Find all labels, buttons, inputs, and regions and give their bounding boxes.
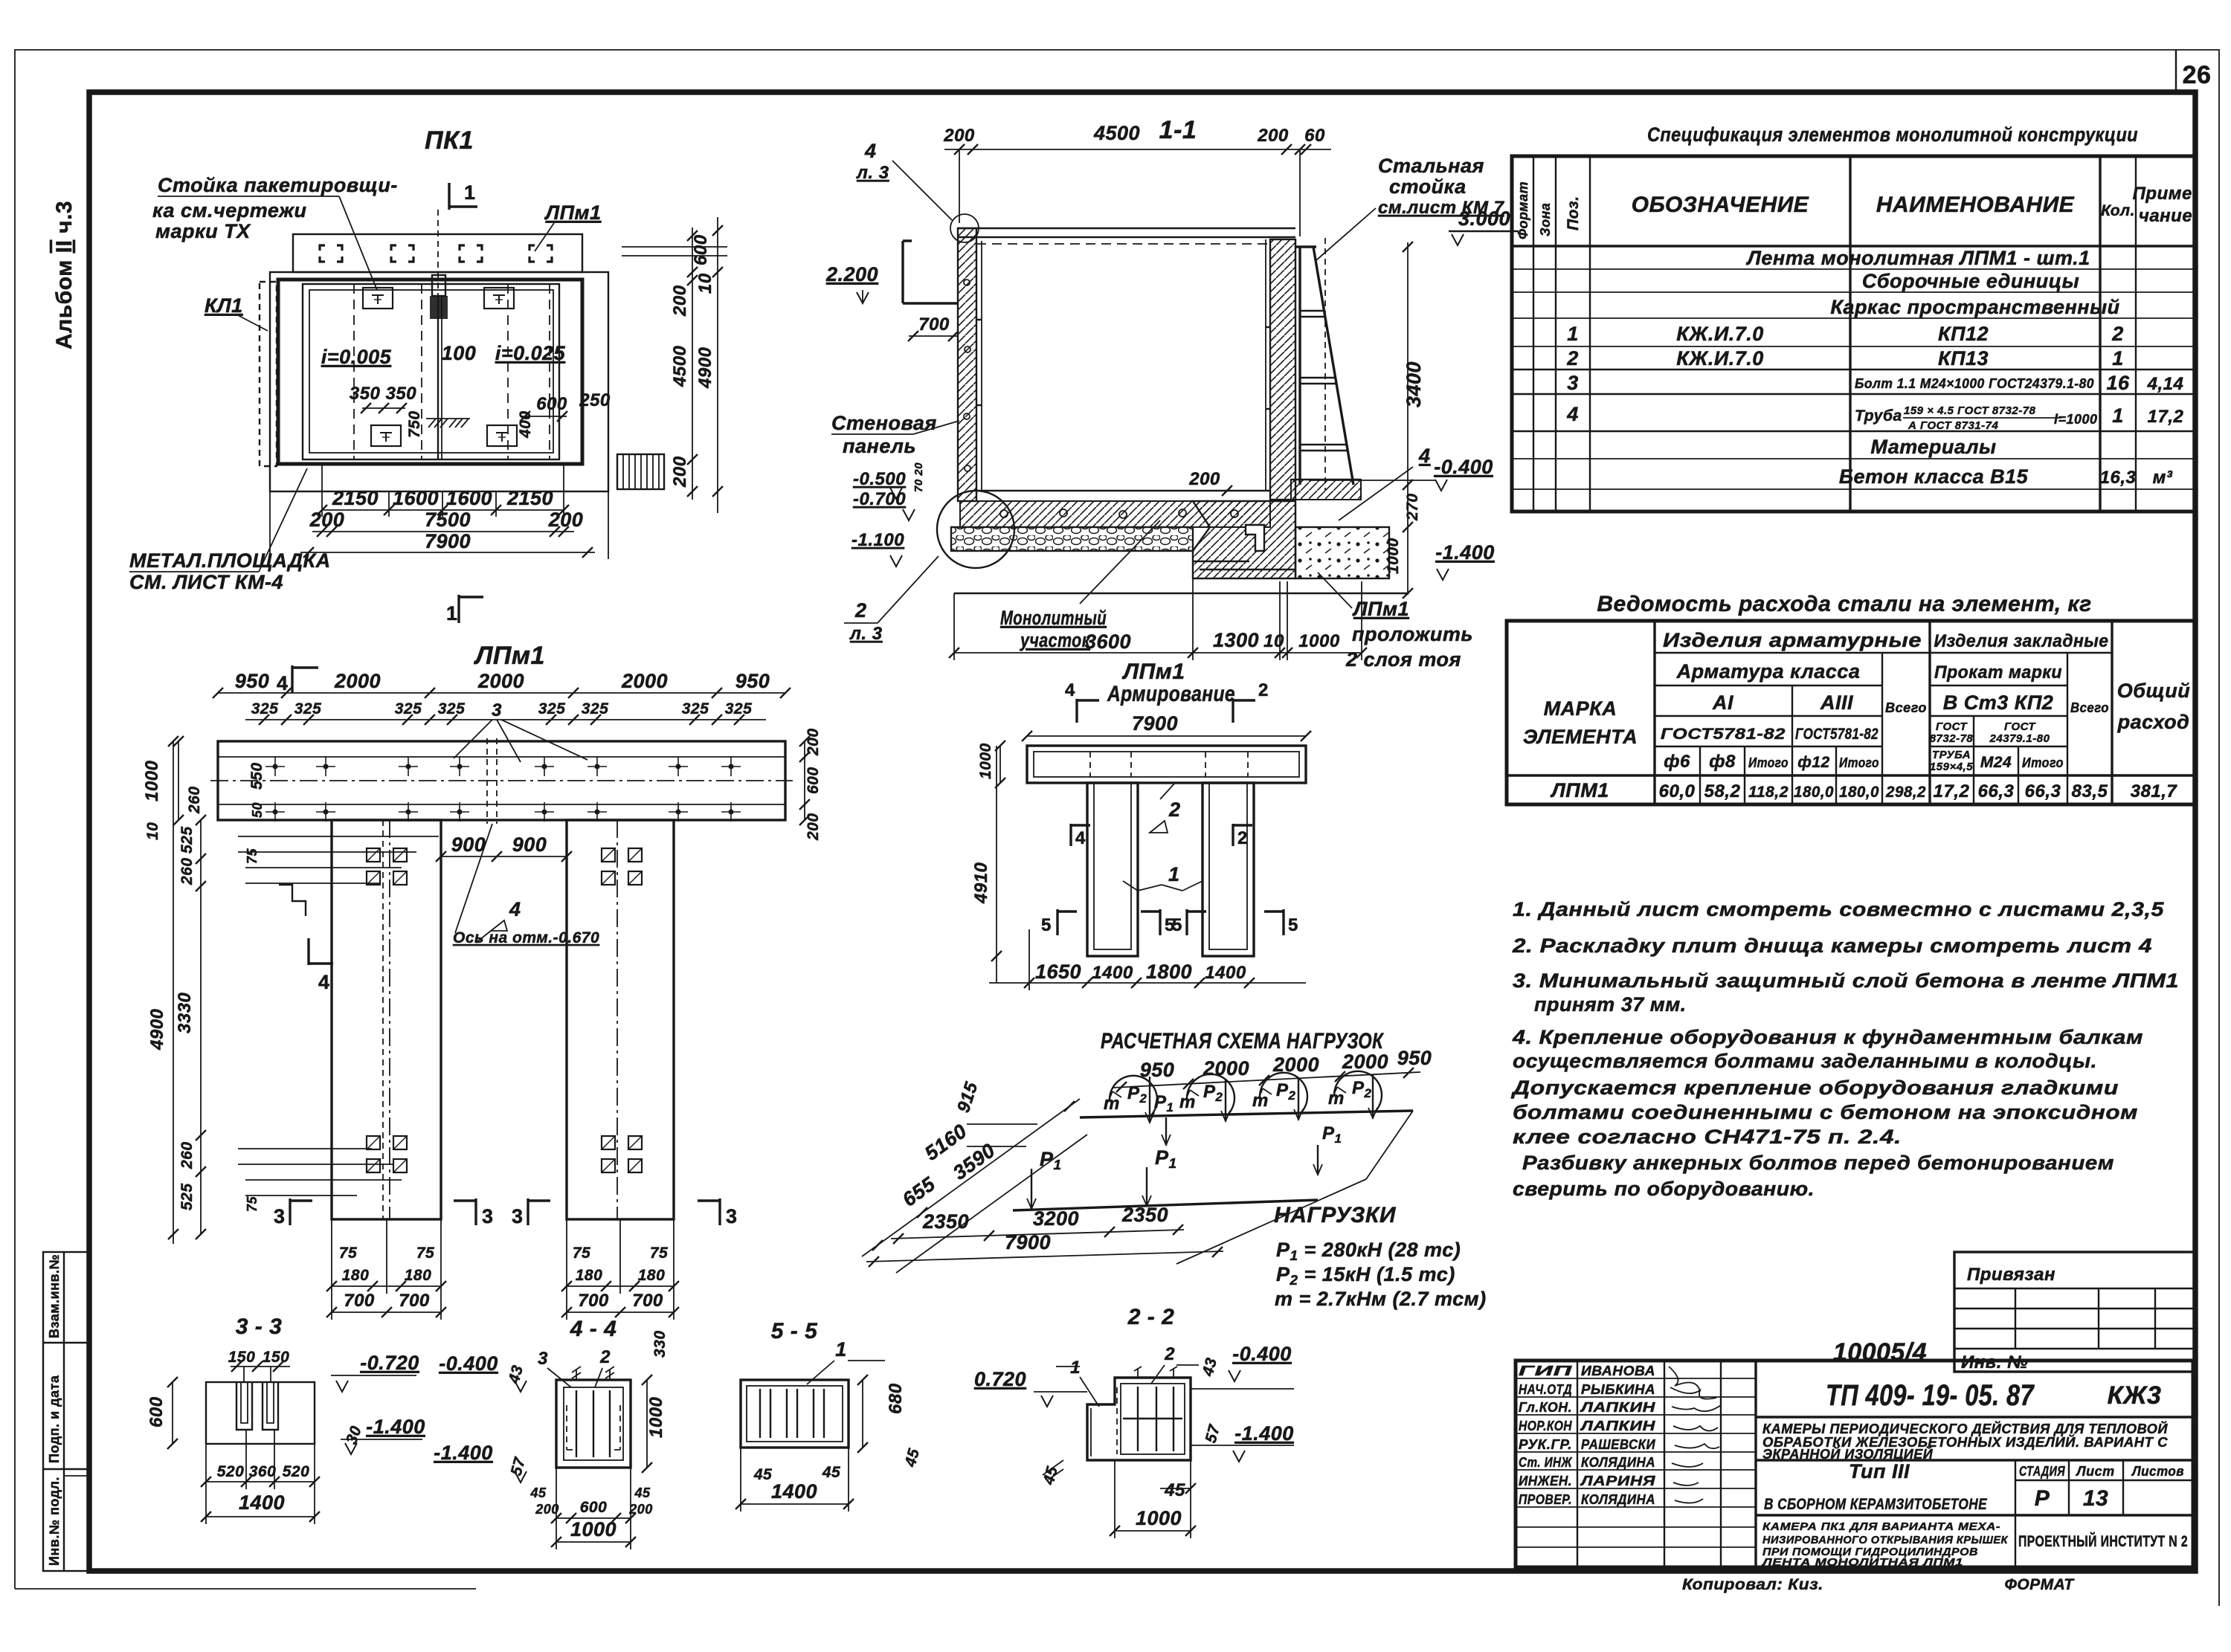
svg-text:7900: 7900	[1005, 1231, 1051, 1253]
svg-text:Разбивку анкерных болтов: Разбивку анкерных болтов перед бетониров…	[1522, 1152, 2114, 1174]
svg-text:Взам.инв.№: Взам.инв.№	[47, 1254, 62, 1338]
metal platform outer rect	[270, 272, 608, 491]
svg-text:200: 200	[670, 456, 690, 488]
svg-text:950: 950	[1140, 1059, 1175, 1081]
svg-text:Общий: Общий	[2117, 680, 2190, 702]
svg-text:ТРУБА: ТРУБА	[1932, 749, 1971, 761]
900 900 dims	[441, 856, 567, 857]
svg-text:180: 180	[405, 1267, 432, 1284]
svg-text:1600: 1600	[393, 487, 439, 509]
svg-text:700: 700	[578, 1291, 609, 1311]
svg-text:1000: 1000	[1385, 538, 1402, 574]
svg-text:4: 4	[509, 898, 521, 920]
svg-text:ЛЕНТА МОНОЛИТНАЯ ЛПМ1: ЛЕНТА МОНОЛИТНАЯ ЛПМ1	[1762, 1556, 1963, 1569]
svg-text:Лист: Лист	[2075, 1464, 2114, 1479]
svg-text:3: 3	[482, 1205, 494, 1227]
svg-text:АI: АI	[1712, 691, 1733, 714]
svg-text:РУК.ГР.: РУК.ГР.	[1519, 1437, 1572, 1452]
svg-text:2. Раскладку плит днища к: 2. Раскладку плит днища камеры смотреть …	[1512, 935, 2152, 957]
svg-text:1400: 1400	[771, 1480, 817, 1503]
svg-text:75: 75	[416, 1245, 434, 1262]
svg-text:550: 550	[248, 762, 265, 790]
svg-text:Стеновая: Стеновая	[831, 412, 937, 434]
svg-text:5: 5	[1288, 915, 1298, 935]
svg-text:180,0: 180,0	[1794, 784, 1834, 801]
left dim chains of legs	[200, 820, 202, 1234]
svg-text:Лента монолитная ЛПМ1 - шт.1: Лента монолитная ЛПМ1 - шт.1	[1745, 247, 2090, 269]
bent plate left	[903, 241, 958, 303]
svg-text:ЛАПКИН: ЛАПКИН	[1579, 1419, 1655, 1433]
svg-text:-0.400: -0.400	[439, 1352, 498, 1375]
3400 dim	[1407, 242, 1409, 492]
svg-text:3. Минимальный защитный сл: 3. Минимальный защитный слой бетона в ле…	[1513, 969, 2179, 992]
svg-text:расход: расход	[2117, 711, 2190, 733]
top dim line 7900	[218, 692, 785, 694]
svg-text:1. Данный лист смотреть со: 1. Данный лист смотреть совместно с лист…	[1513, 898, 2165, 920]
svg-text:2000: 2000	[1203, 1057, 1249, 1080]
svg-text:КЖ.И.7.0: КЖ.И.7.0	[1676, 323, 1764, 345]
svg-text:600: 600	[580, 1499, 608, 1516]
svg-text:ГОСТ: ГОСТ	[2004, 720, 2036, 733]
svg-text:Копировал: Киз.: Копировал: Киз.	[1682, 1576, 1823, 1593]
svg-text:700: 700	[918, 314, 950, 335]
svg-text:75: 75	[650, 1245, 668, 1262]
svg-text:стойка: стойка	[1389, 175, 1467, 198]
svg-text:ф8: ф8	[1709, 752, 1736, 772]
svg-text:СТАДИЯ: СТАДИЯ	[2019, 1464, 2065, 1479]
svg-text:45: 45	[1164, 1480, 1185, 1500]
svg-text:325: 325	[438, 700, 466, 717]
svg-text:260: 260	[178, 1141, 196, 1169]
svg-text:м³: м³	[2153, 468, 2173, 488]
svg-text:КОЛЯДИНА: КОЛЯДИНА	[1581, 1492, 1655, 1507]
svg-text:4500: 4500	[670, 345, 690, 387]
svg-text:ф6: ф6	[1664, 752, 1690, 772]
right part	[1756, 1416, 2193, 1418]
svg-text:ЛПм1: ЛПм1	[473, 642, 545, 670]
svg-text:600: 600	[691, 234, 711, 265]
svg-text:Поз.: Поз.	[1565, 196, 1582, 230]
svg-text:150: 150	[263, 1349, 290, 1366]
steps right	[617, 454, 664, 489]
svg-text:2: 2	[2111, 323, 2124, 345]
svg-text:принят 37 мм.: принят 37 мм.	[1534, 993, 1687, 1016]
svg-text:700: 700	[399, 1291, 430, 1311]
svg-text:ГОСТ5781-82: ГОСТ5781-82	[1795, 726, 1879, 743]
svg-text:m: m	[1252, 1091, 1269, 1111]
svg-text:л. 3: л. 3	[856, 163, 889, 183]
bottom dims	[989, 982, 1306, 984]
floor structure	[976, 490, 1270, 491]
svg-text:900: 900	[451, 833, 486, 856]
svg-text:НИЗИРОВАННОГО ОТКРЫВАНИЯ КРЫШЕ: НИЗИРОВАННОГО ОТКРЫВАНИЯ КРЫШЕК	[1762, 1534, 2009, 1546]
svg-text:16,3: 16,3	[2100, 468, 2137, 488]
svg-text:КЛ1: КЛ1	[205, 294, 243, 317]
svg-text:298,2: 298,2	[1885, 784, 1926, 801]
svg-text:Сборочные единицы: Сборочные единицы	[1862, 270, 2079, 292]
svg-text:ПРОВЕР.: ПРОВЕР.	[1519, 1492, 1572, 1507]
svg-text:Стойка пакетировщи-: Стойка пакетировщи-	[158, 174, 398, 196]
svg-text:4910: 4910	[971, 862, 991, 904]
svg-text:520: 520	[217, 1463, 245, 1480]
svg-text:-1.100: -1.100	[851, 530, 904, 550]
svg-text:Кол.: Кол.	[2101, 202, 2135, 219]
svg-text:Ось на отм.-0.670: Ось на отм.-0.670	[453, 929, 599, 946]
svg-text:270: 270	[1404, 493, 1421, 521]
svg-text:НАИМЕНОВАНИЕ: НАИМЕНОВАНИЕ	[1876, 193, 2075, 217]
svg-text:1000: 1000	[1136, 1507, 1182, 1529]
svg-text:1000: 1000	[142, 760, 162, 801]
svg-text:2 - 2: 2 - 2	[1127, 1305, 1175, 1329]
svg-text:4: 4	[1566, 403, 1579, 425]
svg-text:45: 45	[634, 1485, 651, 1500]
svg-text:л. 3: л. 3	[849, 624, 883, 644]
svg-text:150: 150	[228, 1349, 256, 1366]
svg-text:525: 525	[178, 1183, 196, 1210]
beam 1 with moment arcs	[1080, 1111, 1413, 1117]
svg-text:200: 200	[670, 285, 690, 317]
svg-text:ФОРМАТ: ФОРМАТ	[2004, 1576, 2075, 1593]
svg-text:950: 950	[235, 670, 270, 692]
svg-text:16: 16	[2106, 372, 2130, 394]
right dim chains	[622, 246, 727, 248]
svg-text:ОБОЗНАЧЕНИЕ: ОБОЗНАЧЕНИЕ	[1632, 193, 1809, 217]
svg-text:330: 330	[651, 1330, 669, 1358]
svg-text:Приме-: Приме-	[2133, 184, 2199, 204]
svg-text:ЭЛЕМЕНТА: ЭЛЕМЕНТА	[1523, 726, 1638, 748]
svg-text:66,3: 66,3	[1978, 781, 2015, 801]
svg-text:600: 600	[805, 767, 822, 794]
svg-text:60,0: 60,0	[1659, 781, 1696, 801]
center jack	[437, 296, 439, 459]
svg-text:159 × 4.5 ГОСТ 8732-78: 159 × 4.5 ГОСТ 8732-78	[1904, 404, 2036, 417]
svg-text:1: 1	[835, 1338, 847, 1361]
svg-text:Зона: Зона	[1538, 203, 1553, 236]
sheet number box 26	[2175, 50, 2177, 92]
band	[1027, 746, 1306, 783]
chamber walls	[278, 280, 582, 464]
svg-text:17,2: 17,2	[1934, 781, 1970, 801]
svg-text:i=0.005: i=0.005	[321, 346, 392, 368]
svg-text:4: 4	[318, 971, 330, 993]
right dims of band	[804, 741, 805, 820]
svg-text:4,14: 4,14	[2147, 374, 2184, 394]
svg-text:2: 2	[599, 1347, 611, 1367]
svg-text:325: 325	[395, 700, 422, 717]
svg-text:2: 2	[1566, 347, 1579, 370]
svg-text:4. Крепление оборудования: 4. Крепление оборудования к фундаментным…	[1512, 1026, 2143, 1048]
svg-text:325: 325	[294, 700, 322, 717]
svg-text:2.200: 2.200	[825, 263, 878, 285]
svg-text:4500: 4500	[1093, 122, 1140, 144]
svg-text:2: 2	[1258, 680, 1269, 700]
svg-text:НАЧ.ОТД: НАЧ.ОТД	[1519, 1382, 1572, 1397]
svg-text:75: 75	[245, 1196, 260, 1212]
svg-text:Стальная: Стальная	[1378, 155, 1484, 177]
svg-text:1000: 1000	[570, 1518, 616, 1540]
svg-text:Спецификация элементов монол: Спецификация элементов монолитной констр…	[1647, 123, 2138, 146]
svg-text:панель: панель	[843, 435, 916, 457]
svg-text:Инв.№ подл.: Инв.№ подл.	[47, 1477, 62, 1566]
svg-text:3400: 3400	[1403, 361, 1425, 407]
svg-text:ИВАНОВА: ИВАНОВА	[1581, 1364, 1655, 1378]
svg-text:3600: 3600	[1085, 630, 1131, 653]
svg-text:10: 10	[695, 273, 715, 294]
svg-text:4: 4	[1418, 445, 1431, 467]
svg-text:700: 700	[344, 1291, 375, 1311]
svg-text:Листов: Листов	[2131, 1464, 2184, 1479]
svg-text:950: 950	[1397, 1047, 1432, 1069]
svg-text:ф12: ф12	[1797, 754, 1829, 771]
svg-text:1-1: 1-1	[1159, 116, 1197, 144]
svg-text:4: 4	[864, 140, 877, 162]
svg-text:700: 700	[632, 1291, 663, 1311]
svg-text:4: 4	[1065, 680, 1075, 700]
svg-text:m: m	[1328, 1088, 1345, 1109]
main band	[218, 741, 785, 820]
svg-text:НАГРУЗКИ: НАГРУЗКИ	[1274, 1203, 1397, 1227]
svg-text:2000: 2000	[621, 670, 668, 692]
svg-text:Привязан: Привязан	[1967, 1265, 2055, 1285]
svg-text:1: 1	[1070, 1358, 1081, 1378]
svg-text:1000: 1000	[977, 743, 994, 779]
top dim line	[1113, 1072, 1420, 1088]
svg-text:17,2: 17,2	[2148, 407, 2184, 427]
svg-text:Армирование: Армирование	[1107, 682, 1235, 706]
svg-text:4: 4	[1075, 828, 1086, 848]
svg-text:260: 260	[186, 786, 203, 814]
svg-text:83,5: 83,5	[2072, 781, 2108, 801]
svg-text:В СБОРНОМ КЕРАМЗИТОБЕТОНЕ: В СБОРНОМ КЕРАМЗИТОБЕТОНЕ	[1764, 1496, 1987, 1513]
svg-text:ИНЖЕН.: ИНЖЕН.	[1519, 1474, 1572, 1488]
svg-text:4900: 4900	[695, 346, 715, 389]
svg-text:Изделия закладные: Изделия закладные	[1934, 631, 2109, 651]
svg-text:100: 100	[442, 342, 477, 364]
svg-text:-0.400: -0.400	[1434, 456, 1493, 478]
left wall hatched	[958, 228, 976, 501]
svg-text:325: 325	[582, 700, 609, 717]
svg-text:600: 600	[147, 1396, 167, 1427]
svg-text:Бетон класса В15: Бетон класса В15	[1839, 465, 2029, 488]
KL1 dashed panel left	[260, 282, 277, 466]
dashed joints	[353, 284, 355, 459]
svg-text:-0.400: -0.400	[1232, 1343, 1292, 1365]
legs	[1087, 783, 1138, 956]
325 dim row	[245, 719, 766, 720]
right wall hatched	[1270, 239, 1295, 500]
svg-text:ЛПМ1: ЛПМ1	[1550, 779, 1609, 801]
svg-text:2: 2	[854, 599, 867, 622]
bottom dim chains	[269, 491, 271, 559]
svg-text:1300: 1300	[1213, 629, 1259, 651]
svg-text:3: 3	[274, 1205, 286, 1227]
svg-text:КЖ.И.7.0: КЖ.И.7.0	[1676, 347, 1764, 370]
svg-text:ЛПм1: ЛПм1	[1121, 659, 1185, 684]
svg-text:3: 3	[726, 1205, 738, 1227]
oblique plane edges	[862, 1099, 1080, 1256]
svg-text:200: 200	[805, 813, 822, 841]
svg-text:66,3: 66,3	[2025, 781, 2061, 801]
svg-text:Тип III: Тип III	[1849, 1460, 1910, 1482]
svg-text:2: 2	[1237, 828, 1248, 848]
svg-text:1: 1	[446, 602, 458, 625]
svg-text:В Ст3 КП2: В Ст3 КП2	[1943, 691, 2054, 714]
svg-text:АIII: АIII	[1820, 691, 1853, 714]
svg-text:ка см.чертежи: ка см.чертежи	[152, 199, 306, 222]
svg-text:марки ТХ: марки ТХ	[155, 220, 251, 242]
svg-text:Болт 1.1 М24×1000 ГОСТ24379.1-: Болт 1.1 М24×1000 ГОСТ24379.1-80	[1855, 376, 2094, 391]
svg-text:75: 75	[573, 1245, 590, 1262]
bottom dims	[891, 1230, 1184, 1239]
svg-text:250: 250	[579, 390, 611, 410]
svg-text:участок: участок	[1019, 629, 1090, 651]
svg-text:2000: 2000	[477, 670, 524, 692]
svg-text:600: 600	[536, 394, 567, 414]
oblique dims left	[872, 1240, 883, 1251]
center line of jack	[437, 210, 439, 296]
svg-text:ПК1: ПК1	[425, 126, 474, 155]
svg-text:ГИП: ГИП	[1519, 1364, 1573, 1378]
svg-text:ЛПм1: ЛПм1	[544, 201, 602, 224]
svg-text:200: 200	[548, 509, 584, 531]
svg-text:0.720: 0.720	[974, 1368, 1026, 1390]
svg-text:Всего: Всего	[1885, 700, 1927, 715]
svg-text:1600: 1600	[446, 487, 492, 509]
svg-text:13: 13	[2083, 1486, 2108, 1511]
svg-text:3: 3	[512, 1205, 524, 1227]
svg-text:l=1000: l=1000	[2054, 412, 2098, 427]
svg-text:i=0.025: i=0.025	[495, 342, 566, 364]
svg-text:75: 75	[339, 1245, 357, 1262]
svg-text:-0.500: -0.500	[853, 469, 906, 489]
svg-text:70 20: 70 20	[912, 462, 925, 492]
svg-text:900: 900	[512, 833, 547, 856]
big detail circle bottom left	[937, 491, 1014, 568]
svg-text:болтами соединенными с бет: болтами соединенными с бетоном на эпокси…	[1513, 1101, 2138, 1123]
svg-text:325: 325	[725, 700, 753, 717]
svg-text:КОЛЯДИНА: КОЛЯДИНА	[1581, 1455, 1655, 1470]
svg-text:Допускается крепление обор: Допускается крепление оборудования гладк…	[1511, 1077, 2119, 1099]
svg-text:10: 10	[144, 822, 161, 840]
svg-text:КП13: КП13	[1938, 347, 1989, 370]
svg-text:200: 200	[805, 728, 822, 756]
svg-text:7900: 7900	[425, 530, 471, 552]
svg-text:2350: 2350	[922, 1210, 969, 1233]
svg-text:m: m	[1179, 1092, 1196, 1112]
section 3 marks	[289, 1198, 291, 1225]
svg-text:60: 60	[1304, 126, 1325, 146]
svg-text:4900: 4900	[147, 1008, 167, 1051]
svg-text:ТП 409- 19- 05. 87: ТП 409- 19- 05. 87	[1826, 1379, 2035, 1412]
svg-text:75: 75	[245, 848, 260, 864]
svg-text:Гл.КОН.: Гл.КОН.	[1519, 1400, 1572, 1415]
svg-text:4 - 4: 4 - 4	[570, 1317, 617, 1341]
svg-text:45: 45	[753, 1466, 772, 1483]
section mark 1 bottom	[457, 595, 460, 623]
svg-text:200: 200	[628, 1502, 653, 1517]
svg-text:26: 26	[2183, 61, 2212, 89]
svg-text:1650: 1650	[1035, 961, 1081, 983]
left dims of band	[178, 741, 179, 820]
svg-text:3200: 3200	[1033, 1207, 1079, 1230]
svg-text:200: 200	[1188, 469, 1220, 489]
svg-text:2150: 2150	[506, 487, 553, 509]
svg-text:680: 680	[886, 1383, 906, 1414]
svg-text:КАМЕРЫ ПЕРИОДИЧЕСКОГО ДЕЙСТВ: КАМЕРЫ ПЕРИОДИЧЕСКОГО ДЕЙСТВИЯ ДЛЯ ТЕПЛО…	[1762, 1421, 2169, 1436]
svg-text:Формат: Формат	[1516, 181, 1530, 239]
svg-text:1: 1	[2112, 347, 2124, 370]
svg-text:180,0: 180,0	[1839, 784, 1879, 801]
svg-text:Всего: Всего	[2070, 700, 2109, 715]
svg-text:М24: М24	[1980, 754, 2012, 771]
svg-text:Арматура класса: Арматура класса	[1676, 660, 1861, 683]
svg-text:325: 325	[682, 700, 709, 717]
svg-text:-1.400: -1.400	[1435, 541, 1495, 564]
svg-text:2350: 2350	[1121, 1204, 1168, 1226]
svg-text:ЭКРАННОЙ ИЗОЛЯЦИЕЙ: ЭКРАННОЙ ИЗОЛЯЦИЕЙ	[1762, 1446, 1934, 1462]
svg-text:2000: 2000	[1342, 1051, 1388, 1073]
svg-text:200: 200	[1257, 126, 1289, 146]
svg-text:сверить по оборудованию.: сверить по оборудованию.	[1513, 1178, 1815, 1200]
anchor plates	[363, 288, 393, 309]
svg-text:Каркас пространственный: Каркас пространственный	[1830, 296, 2119, 318]
svg-text:1: 1	[2112, 404, 2124, 427]
bottom dims	[953, 593, 955, 660]
svg-text:24379.1-80: 24379.1-80	[1989, 732, 2050, 745]
svg-text:-0.720: -0.720	[360, 1352, 419, 1374]
svg-text:5: 5	[1172, 915, 1182, 935]
svg-text:45: 45	[529, 1485, 547, 1500]
svg-text:1400: 1400	[239, 1491, 285, 1514]
steel stand	[1295, 245, 1316, 248]
svg-text:Ст. ИНЖ: Ст. ИНЖ	[1519, 1455, 1573, 1470]
left margin stamp boxes	[43, 1252, 90, 1571]
svg-text:Итого: Итого	[1748, 755, 1789, 770]
top cover slab	[958, 228, 1295, 229]
svg-text:клее согласно СН471-75 п.: клее согласно СН471-75 п. 2.4.	[1513, 1126, 1902, 1148]
svg-text:Прокат марки: Прокат марки	[1934, 662, 2062, 683]
svg-text:-1.400: -1.400	[366, 1416, 425, 1438]
svg-text:3330: 3330	[175, 992, 195, 1033]
upper strip	[293, 234, 582, 272]
svg-text:7900: 7900	[1132, 712, 1178, 735]
bottom dims under legs	[331, 1219, 332, 1320]
svg-text:Итого: Итого	[1839, 755, 1879, 770]
svg-text:50: 50	[250, 802, 265, 818]
svg-text:3: 3	[492, 700, 502, 720]
svg-text:350 350: 350 350	[350, 384, 416, 404]
svg-text:58,2: 58,2	[1704, 781, 1741, 801]
svg-text:5 - 5: 5 - 5	[771, 1319, 818, 1343]
svg-text:m: m	[1104, 1094, 1120, 1114]
svg-text:КЖ3: КЖ3	[2108, 1381, 2162, 1410]
svg-text:7500: 7500	[425, 509, 471, 531]
svg-text:-0.700: -0.700	[853, 489, 906, 509]
svg-text:8732-78: 8732-78	[1930, 732, 1974, 745]
svg-text:ГОСТ5781-82: ГОСТ5781-82	[1661, 726, 1786, 743]
legs	[332, 820, 441, 1219]
section mark 4 lower	[307, 938, 309, 965]
svg-text:381,7: 381,7	[2131, 781, 2178, 801]
svg-text:1000: 1000	[1298, 631, 1340, 651]
svg-text:2150: 2150	[332, 487, 379, 509]
svg-text:200: 200	[943, 126, 975, 146]
svg-text:осуществляется болтами задел: осуществляется болтами заделанными в кол…	[1513, 1050, 2097, 1072]
svg-text:180: 180	[576, 1267, 603, 1284]
svg-text:360: 360	[249, 1463, 277, 1480]
svg-text:750: 750	[406, 410, 423, 438]
svg-text:260: 260	[178, 857, 196, 885]
